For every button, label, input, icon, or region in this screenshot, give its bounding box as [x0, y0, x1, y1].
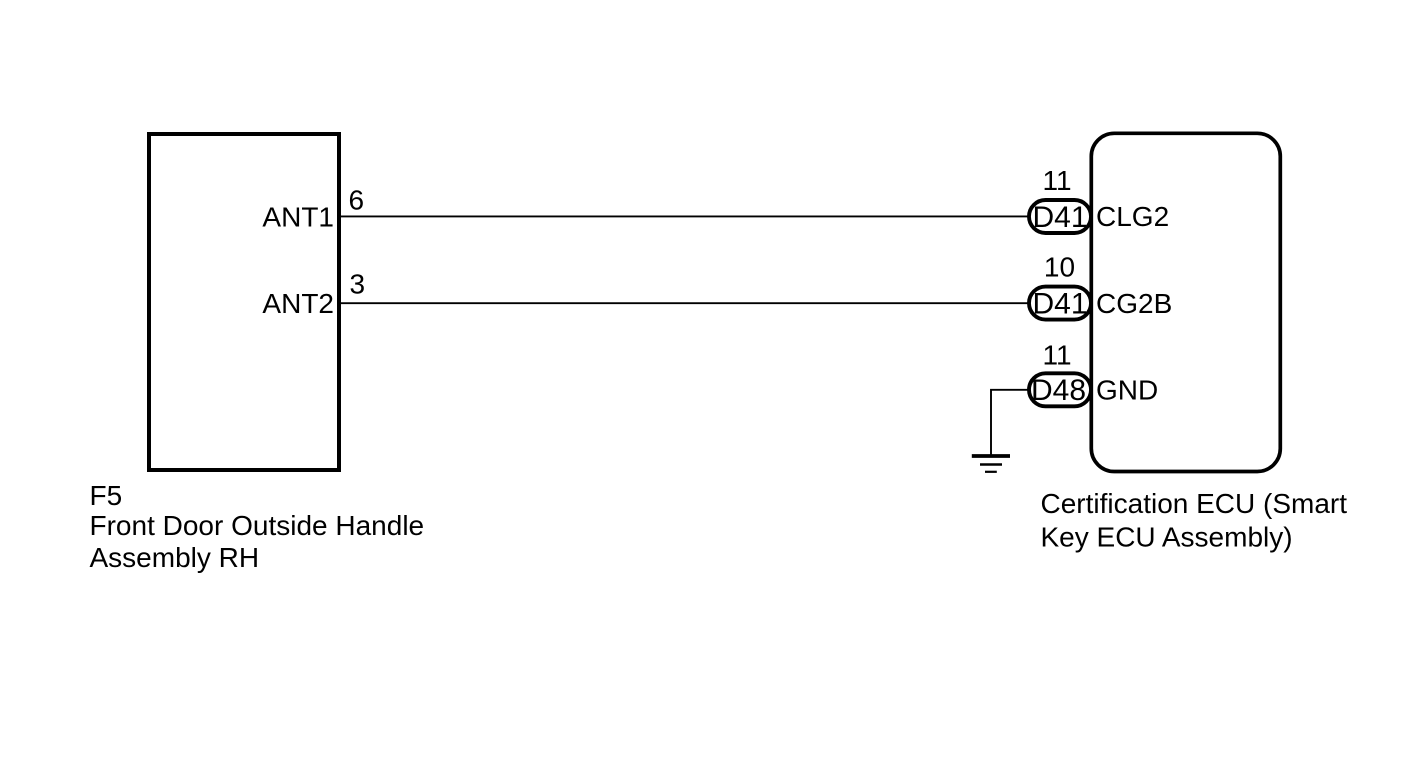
- svg-text:Assembly RH: Assembly RH: [90, 542, 260, 573]
- svg-text:CLG2: CLG2: [1096, 201, 1169, 232]
- svg-text:CG2B: CG2B: [1096, 288, 1172, 319]
- svg-text:11: 11: [1042, 340, 1071, 371]
- wire ANT2 to D41 pin 10: [341, 302, 1029, 304]
- ground symbol: [972, 456, 1010, 472]
- connector oval D41 pin 11: [1029, 200, 1091, 233]
- svg-text:F5: F5: [90, 480, 123, 511]
- svg-text:Certification ECU (Smart: Certification ECU (Smart: [1041, 488, 1348, 519]
- svg-text:10: 10: [1044, 252, 1075, 283]
- svg-text:Key ECU Assembly): Key ECU Assembly): [1041, 522, 1293, 553]
- svg-text:ANT2: ANT2: [262, 288, 334, 319]
- svg-text:D41: D41: [1032, 287, 1087, 320]
- Certification ECU (Smart Key ECU Assembly): [1091, 133, 1280, 471]
- svg-text:D41: D41: [1032, 201, 1087, 234]
- connector oval D48 pin 11: [1029, 373, 1091, 406]
- svg-text:6: 6: [349, 185, 365, 216]
- svg-text:3: 3: [350, 269, 366, 300]
- svg-text:ANT1: ANT1: [262, 202, 334, 233]
- svg-text:Front Door Outside Handle: Front Door Outside Handle: [90, 510, 425, 541]
- svg-text:GND: GND: [1096, 375, 1158, 406]
- svg-text:11: 11: [1042, 165, 1071, 196]
- svg-text:D48: D48: [1031, 374, 1086, 407]
- connector oval D41 pin 10: [1029, 287, 1091, 320]
- wire D48 GND to ground: [991, 390, 1029, 455]
- wire ANT1 to D41 pin 11: [341, 215, 1029, 217]
- connector F5 Front Door Outside Handle Assembly RH: [149, 134, 339, 470]
